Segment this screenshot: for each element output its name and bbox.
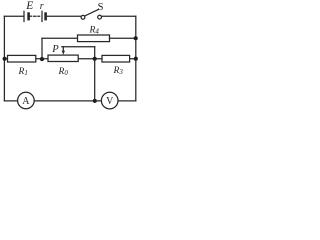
rheostat R0 — [48, 55, 78, 61]
voltmeter V — [101, 92, 118, 109]
wire R4 branch right — [110, 37, 136, 39]
node E right R4 branch — [134, 36, 138, 40]
svg-text:P: P — [51, 44, 59, 55]
svg-text:A: A — [22, 96, 30, 107]
svg-text:r: r — [40, 1, 44, 12]
node F bottom — [93, 99, 97, 103]
wire middle row — [4, 58, 135, 60]
svg-text:V: V — [106, 96, 114, 107]
wire top left to battery — [4, 15, 23, 17]
wire right vertical — [135, 16, 137, 101]
wire branch up from node B — [41, 38, 43, 59]
resistor R4 — [78, 35, 110, 42]
svg-text:R3: R3 — [113, 66, 124, 76]
node A left — [3, 57, 7, 61]
node D right middle — [134, 57, 138, 61]
wiper P arm — [62, 47, 95, 59]
wire R4 branch left — [42, 37, 78, 39]
wire battery to switch — [47, 15, 81, 17]
svg-text:R1: R1 — [18, 67, 28, 77]
ammeter A — [18, 92, 35, 109]
battery E r — [24, 11, 46, 21]
switch S — [81, 9, 101, 19]
svg-text:R4: R4 — [89, 25, 100, 35]
wire node C down to bottom — [94, 59, 96, 101]
node B after R1 — [40, 57, 44, 61]
resistor R3 — [102, 55, 130, 62]
svg-text:S: S — [98, 2, 104, 13]
resistor R1 — [8, 55, 36, 62]
wire switch to top right corner — [102, 15, 136, 17]
wire bottom — [4, 100, 135, 102]
wire left vertical — [3, 16, 5, 101]
node C after R0 — [93, 57, 97, 61]
svg-text:E: E — [25, 0, 33, 12]
svg-text:R0: R0 — [58, 67, 69, 77]
